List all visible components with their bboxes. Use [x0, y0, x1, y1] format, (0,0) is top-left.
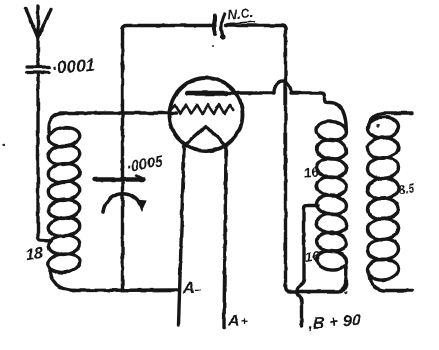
svg-text:·0001: ·0001	[51, 55, 96, 78]
svg-text:,B + 90: ,B + 90	[307, 312, 361, 333]
coil L1 "18"	[47, 114, 80, 291]
svg-text:·0005: ·0005	[125, 154, 165, 176]
wire plate lead with hop	[226, 81, 346, 132]
svg-text:–: –	[194, 282, 201, 297]
transformer T1 primary (left winding)	[316, 120, 348, 291]
wire top run	[123, 26, 213, 30]
svg-text:8.5: 8.5	[398, 182, 416, 197]
svg-text:16: 16	[304, 248, 322, 265]
capacitor C2 .0005 variable	[95, 28, 147, 289]
svg-text:18: 18	[24, 245, 44, 264]
wire N.C. to right vertical	[226, 26, 286, 30]
label A-	[182, 280, 201, 297]
wire filament lead A+	[224, 148, 226, 327]
wire bottom bus	[73, 288, 177, 292]
wire antenna lead down	[38, 73, 52, 241]
label B+90	[307, 312, 361, 333]
wire bottom right bus	[286, 281, 347, 292]
ink specks	[2, 45, 379, 294]
svg-text:A: A	[182, 280, 195, 297]
svg-text:N.C.: N.C.	[227, 5, 254, 23]
svg-text:+: +	[241, 314, 248, 328]
tube V1 envelope	[170, 78, 243, 151]
antenna	[26, 6, 51, 66]
wire long vertical drop	[284, 28, 287, 287]
tube plate bar	[187, 91, 226, 96]
tube filament	[184, 126, 227, 147]
svg-text:A: A	[227, 313, 240, 330]
wire filament lead A-	[179, 148, 185, 325]
tube grid zigzag	[169, 105, 233, 114]
wire primary tap to B+	[297, 206, 318, 327]
capacitor N.C.	[215, 14, 226, 40]
wire grid lead	[60, 111, 176, 114]
capacitor .0001	[27, 67, 49, 73]
label A+	[227, 313, 248, 330]
transformer T1 secondary	[367, 113, 412, 291]
